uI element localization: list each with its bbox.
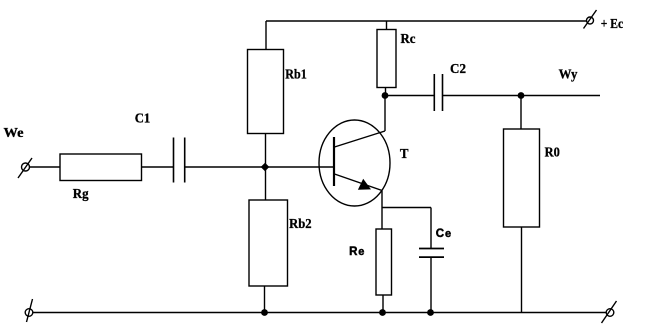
terminal ground-right — [602, 301, 617, 323]
node ground-Ce — [427, 309, 434, 316]
capacitor C1 — [135, 111, 185, 182]
node B (base node) — [261, 163, 268, 170]
wire emitter junction to Ce — [382, 207, 431, 209]
wire bottom rail — [33, 312, 606, 314]
svg-text:Rc: Rc — [401, 32, 416, 47]
node ground-Re — [379, 309, 386, 316]
wire Re to ground rail — [382, 295, 384, 313]
wire top rail to Rc — [386, 21, 388, 30]
resistor Rg — [60, 154, 142, 202]
svg-text:C: C — [436, 228, 444, 240]
wire Rg to C1 — [142, 166, 174, 168]
node C (collector node) — [382, 92, 389, 99]
wire C1 to node B — [185, 166, 265, 168]
wire C2 to output — [443, 95, 601, 97]
transistor T — [319, 120, 409, 206]
svg-text:R0: R0 — [545, 145, 560, 160]
svg-text:Wy: Wy — [559, 67, 578, 82]
wire node D to R0 — [520, 96, 522, 130]
wire input terminal to Rg — [30, 166, 61, 168]
wire node C to C2 — [385, 95, 434, 97]
terminal ground-left — [25, 299, 33, 322]
wire collector to node C — [384, 96, 386, 132]
wire node B to base — [265, 166, 334, 168]
resistor Rb2 — [249, 200, 312, 286]
svg-text:T: T — [400, 147, 409, 162]
resistor Rb1 — [248, 50, 307, 134]
resistor R0 — [504, 129, 560, 227]
wire Rb1 to node B — [265, 134, 267, 168]
wire node B to Rb2 — [265, 167, 267, 200]
svg-text:Rg: Rg — [73, 187, 89, 202]
svg-text:+ Ec: + Ec — [601, 17, 623, 32]
wire Rc to node C — [385, 88, 387, 96]
resistor Re — [349, 229, 391, 295]
node ground-Rb2 — [261, 309, 268, 316]
terminal +Ec — [584, 10, 624, 32]
svg-text:C1: C1 — [135, 111, 151, 126]
svg-text:Rb2: Rb2 — [289, 217, 312, 232]
svg-text:e: e — [445, 228, 451, 240]
wire top rail to Rb1 — [265, 21, 267, 50]
svg-text:e: e — [358, 246, 364, 258]
svg-text:C2: C2 — [450, 62, 466, 77]
wire to Ce top plate — [430, 208, 432, 249]
wire top rail — [266, 20, 587, 22]
node D (output node) — [518, 92, 525, 99]
svg-text:R: R — [349, 246, 358, 258]
wire Ce to ground rail — [430, 257, 432, 313]
svg-text:We: We — [4, 126, 24, 141]
resistor Rc — [377, 30, 416, 88]
capacitor C2 — [434, 62, 466, 111]
wire R0 to ground rail — [521, 227, 523, 313]
svg-text:Rb1: Rb1 — [285, 67, 307, 82]
wire emitter to Re — [381, 191, 383, 230]
terminal input We — [4, 126, 33, 178]
wire Rb2 to ground rail — [264, 286, 266, 313]
capacitor Ce — [419, 228, 451, 257]
